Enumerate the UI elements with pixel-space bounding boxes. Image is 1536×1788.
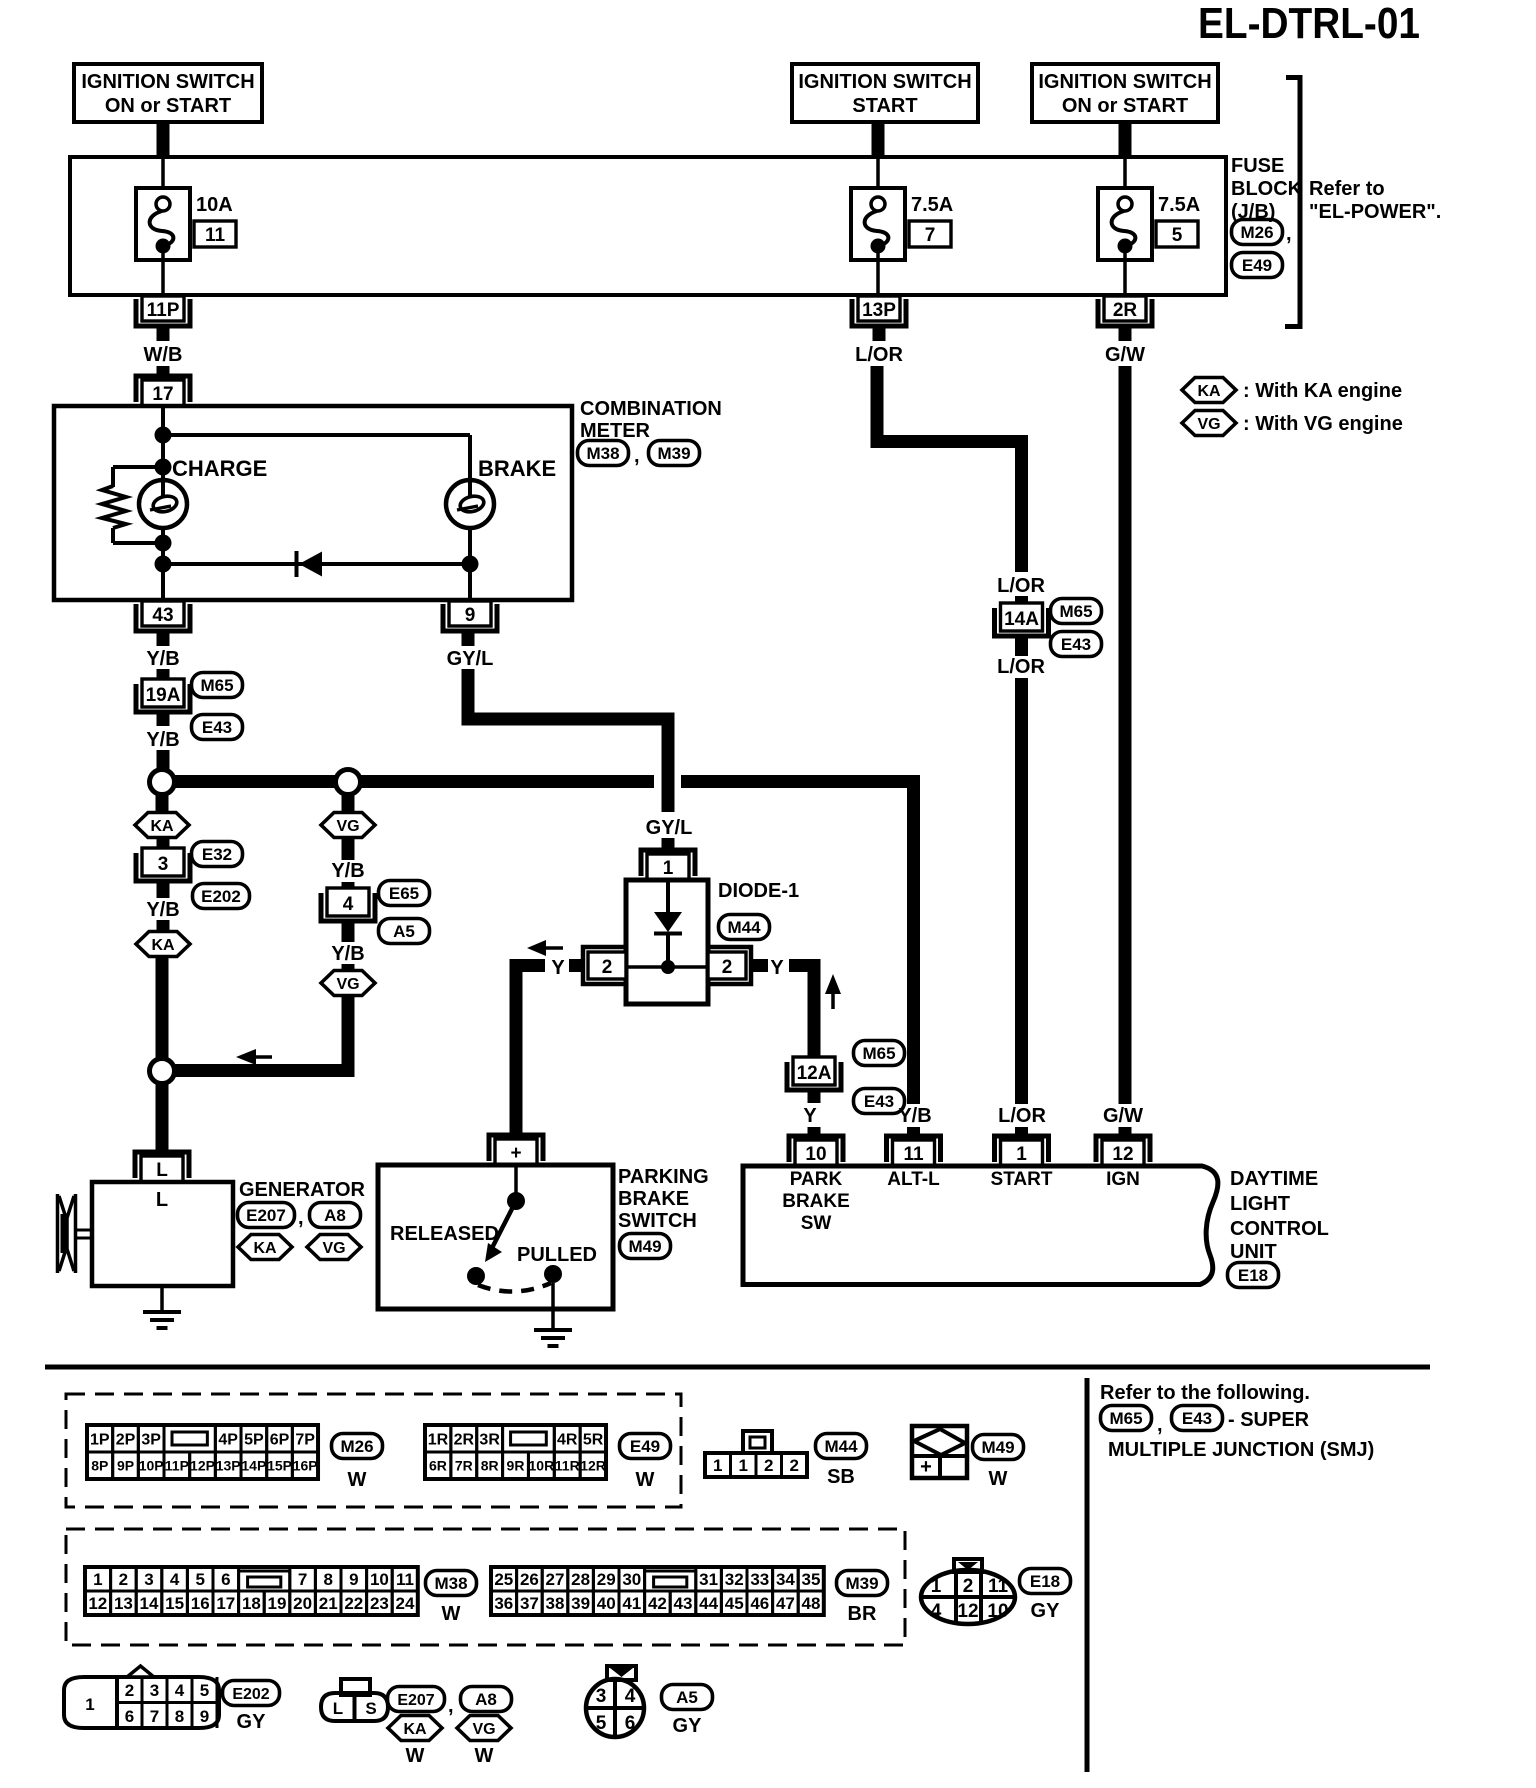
svg-text:1: 1 xyxy=(713,1456,722,1475)
svg-text:13P: 13P xyxy=(216,1458,241,1474)
svg-text:7: 7 xyxy=(925,225,936,246)
connector 43 xyxy=(136,604,190,631)
svg-text:39: 39 xyxy=(571,1594,590,1613)
fuse 10A number 11 xyxy=(161,159,165,198)
svg-text:CHARGE: CHARGE xyxy=(172,456,267,481)
wire inside meter from pin 17 down to pin 43 xyxy=(161,406,165,600)
svg-text:7P: 7P xyxy=(295,1431,315,1448)
svg-text:25: 25 xyxy=(494,1570,513,1589)
parking brake switch ground xyxy=(551,1309,555,1330)
svg-text:BRAKE: BRAKE xyxy=(478,456,556,481)
engine tag KA (face) xyxy=(388,1716,442,1741)
flow arrow on left Y wire xyxy=(543,946,563,950)
svg-text:1: 1 xyxy=(739,1456,748,1475)
svg-text:4: 4 xyxy=(170,1570,180,1589)
svg-text:40: 40 xyxy=(597,1594,616,1613)
svg-text:12: 12 xyxy=(1112,1144,1133,1165)
svg-text:23: 23 xyxy=(370,1594,389,1613)
Y/B bus wire continues right of GY/L crossing xyxy=(681,775,920,788)
svg-text:START: START xyxy=(991,1169,1053,1190)
svg-text:DAYTIME: DAYTIME xyxy=(1230,1168,1318,1190)
svg-text:12P: 12P xyxy=(190,1458,215,1474)
svg-text:,: , xyxy=(1286,223,1292,245)
svg-text:7: 7 xyxy=(298,1570,307,1589)
wire from splice down to generator xyxy=(156,1083,169,1150)
svg-text:S: S xyxy=(365,1699,376,1718)
connector 17 xyxy=(136,376,190,402)
connector ref A8 xyxy=(310,1203,361,1228)
svg-text:46: 46 xyxy=(750,1594,769,1613)
svg-text:W: W xyxy=(989,1468,1008,1490)
bracket for fuse block note xyxy=(1285,78,1300,327)
svg-text:13: 13 xyxy=(114,1594,133,1613)
legend KA = with KA engine xyxy=(1182,378,1236,403)
svg-text:E202: E202 xyxy=(232,1686,269,1703)
svg-text:8P: 8P xyxy=(91,1458,108,1474)
svg-text:1: 1 xyxy=(663,858,674,879)
svg-text:G/W: G/W xyxy=(1105,344,1145,366)
svg-text:Y/B: Y/B xyxy=(146,899,179,921)
svg-text:19A: 19A xyxy=(146,685,181,706)
svg-text:48: 48 xyxy=(802,1594,821,1613)
svg-text:9: 9 xyxy=(465,605,476,626)
svg-text:COMBINATION: COMBINATION xyxy=(580,398,722,420)
power source box IGNITION SWITCH ON or START (right) xyxy=(1032,64,1218,122)
svg-text:12A: 12A xyxy=(797,1063,832,1084)
connector 10 (PARK BRAKE SW) xyxy=(789,1136,843,1162)
svg-text:31: 31 xyxy=(699,1570,718,1589)
junction dot left end of diode line xyxy=(155,556,172,573)
svg-text:4: 4 xyxy=(931,1601,942,1622)
svg-text:E49: E49 xyxy=(630,1437,660,1456)
connector 2 (diode right pin) xyxy=(708,947,751,984)
svg-text:IGN: IGN xyxy=(1106,1169,1140,1190)
svg-text:11: 11 xyxy=(205,225,226,246)
svg-text:4: 4 xyxy=(175,1681,185,1700)
svg-text:43: 43 xyxy=(674,1594,693,1613)
svg-text:27: 27 xyxy=(546,1570,565,1589)
svg-text:7R: 7R xyxy=(455,1458,473,1474)
svg-text:5: 5 xyxy=(1172,225,1183,246)
connector ref E18 (face) xyxy=(1020,1569,1071,1594)
svg-text:2: 2 xyxy=(963,1576,974,1597)
fuse 7.5A number 5 xyxy=(1123,159,1127,198)
fuse block box xyxy=(70,157,1226,295)
junction dot at charge branch xyxy=(155,459,172,476)
wire Y from diode right pin down to 12A xyxy=(789,966,814,1058)
svg-text:IGNITION SWITCH: IGNITION SWITCH xyxy=(798,71,971,93)
svg-text:M39: M39 xyxy=(845,1574,878,1593)
generator pulley xyxy=(56,1194,60,1273)
svg-text:E207: E207 xyxy=(246,1206,286,1225)
junction circle left (Y/B splice) xyxy=(150,770,175,795)
svg-text:W: W xyxy=(475,1745,494,1767)
connector ref M39 xyxy=(649,441,700,466)
released contact dot xyxy=(467,1267,485,1285)
svg-text:EL-DTRL-01: EL-DTRL-01 xyxy=(1198,0,1420,48)
svg-text:KA: KA xyxy=(150,818,174,835)
svg-text:11P: 11P xyxy=(147,300,180,321)
svg-text:E43: E43 xyxy=(202,718,232,737)
connector 4 with refs xyxy=(321,893,375,921)
svg-text:Y: Y xyxy=(770,957,784,979)
diode line inside meter xyxy=(163,562,470,566)
svg-text:14: 14 xyxy=(140,1594,159,1613)
pulled contact dot xyxy=(544,1265,562,1283)
svg-text:4: 4 xyxy=(343,894,354,915)
svg-text:L/OR: L/OR xyxy=(997,656,1045,678)
svg-text:13P: 13P xyxy=(862,300,896,321)
svg-text:2: 2 xyxy=(790,1456,799,1475)
svg-text:45: 45 xyxy=(725,1594,744,1613)
svg-text:ON or START: ON or START xyxy=(105,95,231,117)
svg-text:L: L xyxy=(156,1160,168,1181)
generator shaft xyxy=(76,1229,92,1232)
svg-text:8R: 8R xyxy=(481,1458,499,1474)
svg-text:Y/B: Y/B xyxy=(331,860,364,882)
svg-text:5: 5 xyxy=(200,1681,209,1700)
svg-text:5P: 5P xyxy=(244,1431,264,1448)
wire stub to VG tag xyxy=(342,794,355,813)
connector ref E202 xyxy=(193,884,250,909)
svg-text:34: 34 xyxy=(776,1570,795,1589)
svg-text:IGNITION SWITCH: IGNITION SWITCH xyxy=(1038,71,1211,93)
svg-text:2P: 2P xyxy=(116,1431,136,1448)
svg-text:1: 1 xyxy=(931,1576,942,1597)
svg-text:14P: 14P xyxy=(241,1458,266,1474)
connector ref M49 (face) xyxy=(973,1435,1024,1460)
power source box IGNITION SWITCH START (middle) xyxy=(792,64,978,122)
svg-text:A5: A5 xyxy=(676,1688,698,1707)
svg-text:E18: E18 xyxy=(1030,1572,1060,1591)
svg-text:9P: 9P xyxy=(117,1458,134,1474)
svg-text:11R: 11R xyxy=(555,1458,580,1474)
svg-text:10A: 10A xyxy=(196,194,233,216)
svg-text:KA: KA xyxy=(253,1240,277,1257)
svg-text:PARKING: PARKING xyxy=(618,1166,709,1188)
svg-text:1: 1 xyxy=(85,1695,94,1714)
svg-text:7: 7 xyxy=(150,1707,159,1726)
svg-text:BLOCK: BLOCK xyxy=(1231,178,1303,200)
connector ref E43 (14A) xyxy=(1051,632,1102,657)
svg-text:VG: VG xyxy=(472,1721,495,1738)
svg-text:10P: 10P xyxy=(139,1458,164,1474)
svg-text:PULLED: PULLED xyxy=(517,1244,597,1266)
combination meter box xyxy=(54,406,572,600)
svg-text:ALT-L: ALT-L xyxy=(887,1169,940,1190)
svg-text:4: 4 xyxy=(625,1686,636,1707)
svg-text:E202: E202 xyxy=(201,887,241,906)
connector ref M38 xyxy=(578,441,629,466)
svg-text:GY: GY xyxy=(1031,1600,1061,1622)
svg-text:35: 35 xyxy=(802,1570,821,1589)
svg-text:10: 10 xyxy=(370,1570,389,1589)
svg-text:15P: 15P xyxy=(267,1458,292,1474)
svg-text:10: 10 xyxy=(805,1144,826,1165)
power source box IGNITION SWITCH ON or START (left) xyxy=(74,64,262,122)
svg-text:24: 24 xyxy=(396,1594,415,1613)
Y/B bus wire from splice to ALT-L branch xyxy=(174,775,654,788)
diode symbol inside DIODE-1 xyxy=(666,880,670,913)
svg-text:L: L xyxy=(156,1189,168,1211)
svg-text:Y/B: Y/B xyxy=(146,729,179,751)
svg-text:5: 5 xyxy=(596,1713,607,1734)
svg-text:19: 19 xyxy=(268,1594,287,1613)
connector face M44 (diode) xyxy=(705,1453,731,1477)
svg-text:1: 1 xyxy=(93,1570,102,1589)
svg-text:11P: 11P xyxy=(165,1458,189,1474)
wire GY/L from 9 to diode-1 xyxy=(468,669,668,812)
svg-text:20: 20 xyxy=(293,1594,312,1613)
svg-text:17: 17 xyxy=(216,1594,235,1613)
wire stub to KA tag xyxy=(156,794,169,813)
svg-text:M39: M39 xyxy=(657,444,690,463)
connector ref M38 (face) xyxy=(426,1571,477,1596)
svg-text:12: 12 xyxy=(957,1601,978,1622)
svg-text:7.5A: 7.5A xyxy=(1158,194,1200,216)
svg-text:4R: 4R xyxy=(557,1431,578,1448)
connector face E202 xyxy=(64,1677,219,1728)
svg-text:Refer to: Refer to xyxy=(1309,178,1385,200)
svg-text:17: 17 xyxy=(152,384,173,405)
svg-text:+: + xyxy=(920,1456,932,1478)
svg-text:Y: Y xyxy=(803,1105,817,1127)
svg-text:11: 11 xyxy=(396,1570,414,1589)
connector 19A with SMJ refs xyxy=(136,684,190,712)
svg-text:,: , xyxy=(1157,1414,1163,1436)
wire Y from diode left pin to parking brake switch xyxy=(516,966,545,1136)
connector 1 (diode top) xyxy=(641,850,695,876)
svg-text:M44: M44 xyxy=(727,918,761,937)
junction dot below pin 17 xyxy=(155,427,172,444)
svg-text:START: START xyxy=(852,95,917,117)
svg-text:M49: M49 xyxy=(628,1237,661,1256)
svg-text:9: 9 xyxy=(349,1570,358,1589)
legend VG = with VG engine xyxy=(1182,411,1236,436)
svg-text:W: W xyxy=(406,1745,425,1767)
svg-text:,: , xyxy=(298,1207,304,1229)
wire Y/B down to control unit ALT-L xyxy=(907,775,920,1104)
wire inside meter top horizontal to brake lamp xyxy=(163,433,470,437)
junction dot below charge lamp xyxy=(155,535,172,552)
svg-text:12R: 12R xyxy=(580,1458,606,1474)
svg-text:W: W xyxy=(636,1469,655,1491)
connector ref M44 (face) xyxy=(816,1434,867,1459)
flow arrow on VG-splice wire xyxy=(254,1055,272,1059)
svg-text:41: 41 xyxy=(622,1594,641,1613)
wire L/OR from 14A to control unit START xyxy=(1015,678,1028,1104)
connector face M49 (parking brake switch) xyxy=(912,1426,967,1478)
svg-text:Y/B: Y/B xyxy=(331,943,364,965)
connector face M38 (combination meter) xyxy=(85,1567,111,1591)
svg-text:14A: 14A xyxy=(1004,609,1039,630)
svg-text:11: 11 xyxy=(903,1144,924,1165)
connector face E49 (fuse block) xyxy=(425,1425,451,1452)
connector ref M49 xyxy=(620,1234,671,1259)
connector ref M65 (note) xyxy=(1101,1406,1152,1431)
diode symbol pointing left xyxy=(295,551,299,577)
connector face M26 (fuse block) xyxy=(87,1425,113,1452)
svg-text:KA: KA xyxy=(1197,383,1221,400)
svg-text:SW: SW xyxy=(801,1213,832,1234)
svg-text:VG: VG xyxy=(322,1240,345,1257)
svg-text:6: 6 xyxy=(625,1713,636,1734)
svg-text:33: 33 xyxy=(750,1570,769,1589)
svg-text:,: , xyxy=(448,1695,454,1717)
svg-text:8: 8 xyxy=(323,1570,332,1589)
dashed group box (combination meter connectors) xyxy=(66,1529,905,1645)
svg-text:7.5A: 7.5A xyxy=(911,194,953,216)
svg-text:16: 16 xyxy=(191,1594,210,1613)
svg-text:W: W xyxy=(442,1603,461,1625)
connector 12A with SMJ refs xyxy=(787,1062,841,1090)
engine tag VG (generator) xyxy=(307,1235,361,1260)
svg-text:SB: SB xyxy=(827,1466,855,1488)
svg-text:BRAKE: BRAKE xyxy=(782,1191,850,1212)
connector ref A5 xyxy=(379,919,430,944)
svg-text:PARK: PARK xyxy=(790,1169,843,1190)
svg-text:M65: M65 xyxy=(200,676,233,695)
connector ref E49 (face) xyxy=(620,1434,671,1459)
wire G/W from 2R to control unit IGN xyxy=(1119,366,1132,1104)
connector face L S (generator) xyxy=(341,1679,370,1695)
svg-text:Y: Y xyxy=(551,957,565,979)
svg-text:: With VG engine: : With VG engine xyxy=(1243,413,1403,435)
svg-text:M49: M49 xyxy=(981,1438,1014,1457)
wire VG branch down and left to splice xyxy=(175,996,348,1071)
parking brake switch box xyxy=(378,1165,613,1309)
svg-text:29: 29 xyxy=(597,1570,616,1589)
connector + (parking brake switch) xyxy=(489,1135,543,1161)
svg-text:,: , xyxy=(634,445,640,467)
svg-text:VG: VG xyxy=(336,818,359,835)
daytime light control unit box xyxy=(743,1166,1218,1285)
svg-text:1: 1 xyxy=(1016,1144,1027,1165)
svg-text:GY: GY xyxy=(237,1711,267,1733)
svg-text:2: 2 xyxy=(764,1456,773,1475)
svg-text:1R: 1R xyxy=(428,1431,449,1448)
svg-text:37: 37 xyxy=(520,1594,539,1613)
connector ref E202 (face) xyxy=(223,1681,280,1706)
connector 13P xyxy=(852,299,906,326)
svg-text:16P: 16P xyxy=(293,1458,318,1474)
engine tag VG (upper) xyxy=(321,813,375,838)
svg-text:4P: 4P xyxy=(218,1431,238,1448)
svg-text:FUSE: FUSE xyxy=(1231,155,1284,177)
junction circle right (Y/B splice VG) xyxy=(336,770,361,795)
svg-text:6P: 6P xyxy=(270,1431,290,1448)
svg-text:E32: E32 xyxy=(202,845,232,864)
wire from pulled contact to ground xyxy=(551,1283,555,1309)
connector ref E18 xyxy=(1228,1263,1279,1288)
svg-text:M26: M26 xyxy=(340,1437,373,1456)
generator box xyxy=(92,1182,233,1286)
svg-text:1P: 1P xyxy=(90,1431,110,1448)
svg-text:E43: E43 xyxy=(864,1092,894,1111)
svg-text:6: 6 xyxy=(221,1570,230,1589)
svg-text:2: 2 xyxy=(602,957,613,978)
svg-text:M26: M26 xyxy=(1240,223,1273,242)
svg-text:VG: VG xyxy=(1197,416,1220,433)
svg-text:3: 3 xyxy=(596,1686,607,1707)
dashed group box (fuse block connectors) xyxy=(66,1394,681,1507)
svg-text:MULTIPLE JUNCTION (SMJ): MULTIPLE JUNCTION (SMJ) xyxy=(1108,1439,1374,1461)
flow arrow on right Y wire xyxy=(831,990,835,1009)
svg-text:26: 26 xyxy=(520,1570,539,1589)
svg-text:W/B: W/B xyxy=(144,344,183,366)
connector ref M39 (face) xyxy=(837,1571,888,1596)
svg-text:KA: KA xyxy=(151,937,175,954)
svg-text:DIODE-1: DIODE-1 xyxy=(718,880,799,902)
engine tag KA (generator) xyxy=(238,1235,292,1260)
svg-text:2: 2 xyxy=(722,957,733,978)
connector ref E32 xyxy=(192,842,243,867)
svg-text:E65: E65 xyxy=(389,884,419,903)
svg-text:- SUPER: - SUPER xyxy=(1228,1409,1310,1431)
svg-text:RELEASED: RELEASED xyxy=(390,1223,499,1245)
connector 9 xyxy=(443,604,497,631)
svg-text:2: 2 xyxy=(125,1681,134,1700)
connector ref M65 (12A) xyxy=(854,1041,905,1066)
connector L (generator) xyxy=(135,1152,189,1178)
connector 11P xyxy=(136,299,190,326)
charge warning lamp xyxy=(139,480,187,528)
svg-text:L/OR: L/OR xyxy=(997,575,1045,597)
svg-text:3: 3 xyxy=(144,1570,153,1589)
svg-text:3R: 3R xyxy=(479,1431,500,1448)
connector ref A5 (face) xyxy=(662,1685,713,1710)
svg-text:M44: M44 xyxy=(824,1437,858,1456)
svg-text:GY/L: GY/L xyxy=(447,648,494,670)
engine tag KA (upper) xyxy=(135,813,189,838)
svg-text:"EL-POWER".: "EL-POWER". xyxy=(1309,201,1441,223)
connector 2R xyxy=(1098,299,1152,326)
svg-text:6: 6 xyxy=(125,1707,134,1726)
connector face A5 (diode chain) xyxy=(607,1666,636,1680)
connector ref E43 (19A) xyxy=(192,715,243,740)
svg-text:38: 38 xyxy=(546,1594,565,1613)
svg-text:47: 47 xyxy=(776,1594,795,1613)
svg-text:: With KA engine: : With KA engine xyxy=(1243,380,1402,402)
svg-text:5: 5 xyxy=(195,1570,204,1589)
svg-text:10R: 10R xyxy=(529,1458,555,1474)
svg-text:6R: 6R xyxy=(429,1458,447,1474)
switch arm with arrow (released position) xyxy=(492,1201,516,1248)
svg-text:L/OR: L/OR xyxy=(998,1105,1046,1127)
svg-text:3: 3 xyxy=(158,854,169,875)
svg-text:A8: A8 xyxy=(475,1690,497,1709)
connector ref M26 (face) xyxy=(332,1434,383,1459)
wire L/OR from 13P down to 14A xyxy=(877,366,1022,572)
svg-text:36: 36 xyxy=(494,1594,513,1613)
svg-text:E18: E18 xyxy=(1238,1266,1268,1285)
svg-text:UNIT: UNIT xyxy=(1230,1241,1277,1263)
svg-text:BRAKE: BRAKE xyxy=(618,1188,689,1210)
connector ref E43 (note) xyxy=(1172,1406,1223,1431)
junction circle above generator xyxy=(150,1059,175,1084)
svg-text:Y/B: Y/B xyxy=(146,648,179,670)
switch common contact xyxy=(514,1165,518,1201)
diode DIODE-1 box xyxy=(626,880,708,1004)
svg-text:GY: GY xyxy=(673,1715,703,1737)
svg-text:18: 18 xyxy=(242,1594,261,1613)
svg-text:42: 42 xyxy=(648,1594,667,1613)
svg-text:SWITCH: SWITCH xyxy=(618,1210,697,1232)
connector ref A8 (face) xyxy=(461,1687,512,1712)
svg-text:10: 10 xyxy=(987,1601,1008,1622)
svg-text:30: 30 xyxy=(622,1570,641,1589)
connector ref E65 xyxy=(379,881,430,906)
